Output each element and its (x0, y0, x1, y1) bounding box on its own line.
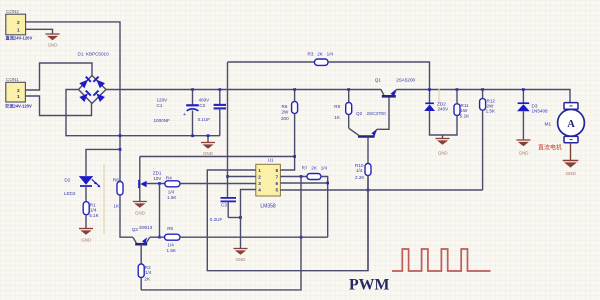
svg-text:2.2K: 2.2K (355, 175, 365, 180)
svg-text:0.2UF: 0.2UF (210, 217, 223, 222)
wire CON2 pin2 to bridge output node (26, 22, 120, 136)
svg-text:1/4: 1/4 (168, 189, 175, 194)
wire positive rail (Q1 emitter to motor) (396, 90, 570, 103)
connector CON1 (5, 77, 32, 110)
wire R8 bottom to Q3 base wire (120, 195, 133, 237)
svg-text:240V: 240V (438, 107, 450, 112)
transistor Q1 (375, 77, 416, 96)
node junction rail/R11 (456, 88, 459, 91)
svg-text:2: 2 (17, 20, 20, 26)
svg-text:D1 KBPC5010: D1 KBPC5010 (78, 52, 110, 57)
resistor R12 (480, 99, 496, 114)
wire CON2 feeder down to R8 top (119, 136, 121, 182)
svg-text:R9: R9 (334, 104, 340, 109)
svg-text:2K: 2K (144, 277, 151, 282)
svg-text:5.1K: 5.1K (460, 114, 470, 119)
svg-text:C2: C2 (199, 103, 205, 108)
node junction C3/pin4 net (239, 216, 242, 219)
svg-text:4: 4 (258, 188, 261, 193)
capacitor C2 (198, 90, 226, 136)
svg-text:8: 8 (275, 168, 278, 173)
node junction LED branch (119, 148, 122, 151)
zener diode ZD1 (139, 171, 162, 189)
wire U1 pin7 to R7 left (280, 176, 307, 178)
node junction pin7/vertical (300, 175, 303, 178)
svg-text:R5: R5 (167, 226, 173, 231)
wire D3 bottom to ground (522, 111, 524, 140)
wire R5 to comparator net (180, 236, 328, 238)
node junction R6/pin8 (293, 155, 296, 158)
sheet border bottom (0, 296, 600, 298)
wire R10 bottom vertical (367, 176, 369, 271)
resistor R8 (113, 177, 123, 208)
wire R12 top to rail (482, 90, 484, 99)
svg-text:GND: GND (203, 151, 213, 156)
svg-text:Q3: Q3 (132, 227, 139, 232)
wire positive rail (bridge right corner to Q1 collector) (106, 89, 381, 91)
svg-text:1W: 1W (461, 108, 469, 113)
node junction rail/R12 (481, 88, 484, 91)
wire motor to ground (570, 143, 572, 161)
ground GND (CON2) (46, 34, 60, 48)
svg-text:1K: 1K (334, 115, 341, 120)
svg-text:LED2: LED2 (64, 191, 76, 196)
node junction C1 bottom / ground rail (191, 134, 194, 137)
svg-text:1/4: 1/4 (90, 208, 97, 213)
wire R9 top to rail (348, 90, 350, 103)
LED D2 (64, 176, 101, 196)
wire R7 right to comparator net (321, 177, 328, 238)
resistor R1 (83, 202, 99, 218)
svg-text:1: 1 (17, 28, 20, 34)
wire CON2 pin1 to ground (26, 29, 53, 34)
node junction C1 top (191, 88, 194, 91)
ground GND (motor) (563, 161, 579, 176)
svg-text:1: 1 (258, 168, 261, 173)
wire U1 pin1 feedback loop to R10 (207, 170, 368, 271)
svg-text:直流24V-120V: 直流24V-120V (6, 35, 33, 42)
svg-text:GND: GND (519, 151, 529, 156)
wire LED branch (86, 149, 120, 176)
node junction CON2/ground-rail (119, 134, 122, 137)
resistor R6 (281, 102, 298, 122)
svg-text:400V: 400V (199, 98, 211, 103)
resistor R2 (138, 264, 152, 282)
resistor R5 (165, 226, 181, 253)
svg-text:C3: C3 (221, 202, 227, 207)
svg-text:Q2: Q2 (356, 111, 363, 116)
wire ZD1/R4 net with tap down (147, 183, 165, 185)
wire CON1 pin2 to bridge AC top (25, 63, 92, 90)
node junction rail/R6 (293, 88, 296, 91)
wire VCC-sub net horizontal (ZD1 to U1 pin8) (140, 157, 295, 171)
svg-text:2: 2 (258, 175, 261, 180)
resistor R7 (302, 166, 328, 180)
node junction ground rail / GND stem (207, 134, 210, 137)
resistor R9 (334, 103, 351, 121)
svg-text:GND: GND (81, 238, 91, 243)
wire R6 bottom to VCC-sub net (294, 114, 296, 157)
dashed highlight mark left column (103, 164, 105, 234)
svg-text:交流24V-120V: 交流24V-120V (5, 103, 32, 110)
svg-text:0.1UF: 0.1UF (198, 117, 211, 122)
svg-text:GND: GND (438, 151, 448, 156)
svg-text:+: + (183, 112, 186, 118)
svg-text:PWM: PWM (349, 277, 389, 294)
node junction rail/ZD2 (428, 88, 431, 91)
svg-text:R4: R4 (166, 175, 172, 180)
ground GND (D3) (516, 140, 530, 156)
wire R2 bottom to pin7 net (140, 278, 142, 290)
ground GND (ZD1) (133, 202, 147, 216)
svg-text:1/4: 1/4 (356, 168, 363, 173)
svg-text:M1: M1 (545, 122, 552, 128)
svg-text:1: 1 (17, 94, 20, 100)
wire R12 bottom to pin5 net (482, 110, 484, 190)
svg-text:R8: R8 (113, 177, 119, 182)
svg-text:10V: 10V (153, 176, 162, 181)
svg-text:200: 200 (281, 116, 289, 121)
svg-text:5.1K: 5.1K (89, 213, 99, 218)
svg-text:U1: U1 (268, 158, 274, 163)
svg-text:直流电机: 直流电机 (538, 144, 562, 152)
wire Q3 emitter-right to R5 (150, 236, 165, 238)
svg-text:S9013: S9013 (139, 225, 153, 230)
node junction tap/Q3 collector (158, 236, 161, 239)
node junction R4 left tap (158, 182, 161, 185)
svg-text:1.5K: 1.5K (167, 195, 177, 200)
wire ZD1 feed vertical (139, 157, 141, 202)
svg-text:1.5K: 1.5K (486, 109, 496, 114)
resistor R4 (165, 175, 180, 200)
diode D3 (517, 90, 548, 114)
ground GND (filter caps) (201, 136, 215, 156)
wire R1 to ground (85, 215, 87, 229)
capacitor C1 (154, 90, 199, 136)
svg-text:1/4: 1/4 (167, 243, 174, 248)
wire R9 bottom to Q2 collector (348, 115, 350, 129)
svg-text:ZD1: ZD1 (153, 171, 162, 176)
svg-text:R6: R6 (282, 104, 288, 109)
wire R3 input net (from vertical feeder to R3) (228, 61, 315, 63)
wire C3 bottom to U1 pin4 ground net (228, 217, 240, 219)
wire pin7 net vertical to Q3 emitter-follower net (141, 177, 301, 290)
svg-text:LM358: LM358 (260, 204, 276, 210)
ground GND (LED) (79, 229, 93, 243)
wire feeder vertical to C3 / U1 pin2 (227, 62, 229, 198)
wire R11 top to rail (456, 90, 458, 104)
resistor R3 (308, 52, 334, 66)
dashed highlight mark at ZD2 (438, 89, 440, 105)
wire R6 top to rail (294, 90, 296, 102)
svg-text:1000NF: 1000NF (154, 118, 171, 123)
svg-text:GND: GND (135, 211, 145, 216)
svg-text:A: A (567, 119, 575, 130)
svg-text:5: 5 (275, 188, 278, 193)
node junction rail/R9 (347, 88, 350, 91)
svg-text:6: 6 (275, 181, 278, 186)
resistor R11 (454, 103, 470, 119)
wire R4 to U1 pin3 (180, 183, 256, 185)
node junction Q3 net / pin7 vertical (300, 236, 303, 239)
bridge rectifier D1 KBPC5010 (78, 52, 110, 104)
svg-text:GND: GND (236, 257, 246, 262)
svg-text:Q1: Q1 (375, 77, 382, 82)
wire U1 pin6 stub (280, 182, 327, 184)
svg-text:GND: GND (566, 171, 577, 176)
PWM waveform (392, 249, 491, 271)
wire Q2 emitter to Q1 base (377, 96, 389, 129)
transistor Q2 (349, 111, 386, 164)
wire R3 to ZD2 node (328, 62, 430, 103)
ground GND (U1 pin4) (234, 249, 248, 263)
capacitor C3 (210, 198, 236, 222)
connector CON2 (6, 9, 33, 42)
svg-text:R7 2K 1/4: R7 2K 1/4 (302, 166, 328, 171)
svg-text:CON2: CON2 (6, 9, 19, 14)
svg-text:2: 2 (17, 88, 20, 94)
wire ZD2 bottom / R11 bottom U (430, 111, 458, 135)
wire U1 pin5 to R12 net (280, 189, 482, 191)
resistor R10 (355, 163, 371, 180)
svg-text:GND: GND (48, 43, 58, 48)
svg-text:R3 2K 1/4: R3 2K 1/4 (308, 52, 334, 57)
node junction rail/D3 (522, 88, 525, 91)
zener diode ZD2 (424, 102, 449, 112)
svg-text:120V: 120V (157, 98, 169, 103)
ground GND (ZD2/R11) (436, 135, 450, 156)
svg-text:1N5408: 1N5408 (532, 108, 549, 113)
motor M1 (538, 103, 584, 152)
svg-text:CON1: CON1 (6, 77, 19, 82)
wire tap vertical to Q3 collector net (159, 184, 161, 238)
node junction pin5/R10 vertical (367, 189, 370, 192)
svg-text:2W: 2W (282, 110, 290, 115)
node junction pin6/R7 net (326, 182, 329, 185)
svg-text:3: 3 (258, 181, 261, 186)
wire U1 pin2 stub (228, 176, 256, 178)
transistor Q3 (132, 225, 153, 264)
wire LED cathode to R1 (85, 186, 87, 202)
svg-text:2SA5200: 2SA5200 (396, 77, 415, 82)
wire U1 pin4 to ground (241, 190, 256, 249)
svg-text:2SC3700: 2SC3700 (367, 111, 387, 116)
svg-text:1.5K: 1.5K (167, 248, 177, 253)
node junction U1 pin2 / feeder (226, 175, 229, 178)
svg-text:D2: D2 (64, 177, 70, 182)
op-amp U1 LM358 (256, 158, 281, 210)
svg-text:7: 7 (275, 175, 278, 180)
svg-text:C1: C1 (157, 103, 163, 108)
svg-text:1K: 1K (113, 204, 120, 209)
wire CON1 pin1 to bridge AC bottom (25, 96, 91, 116)
svg-text:1/4: 1/4 (145, 270, 152, 275)
node junction C2 top (219, 88, 222, 91)
wire bridge left corner to ground rail (66, 90, 220, 136)
